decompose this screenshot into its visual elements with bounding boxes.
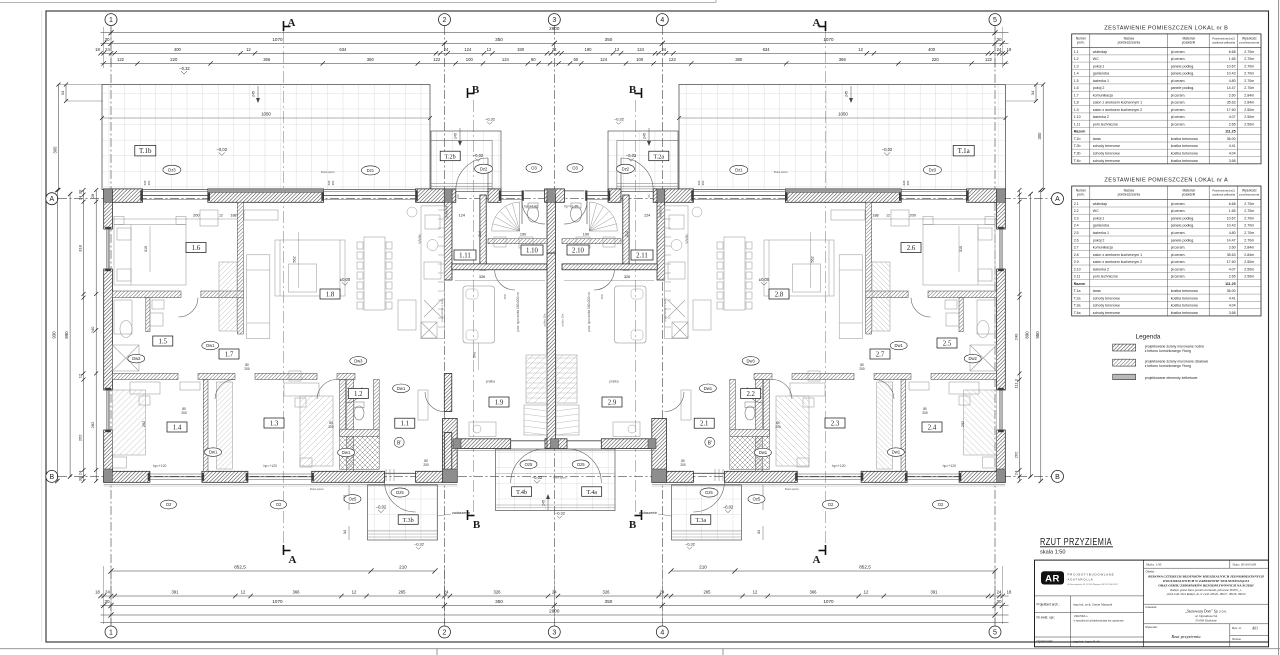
svg-text:852,5: 852,5 [859,565,871,570]
svg-text:pokój 2: pokój 2 [1093,238,1105,242]
terrace T.4 step arrow [547,495,549,510]
svg-text:326: 326 [494,590,502,595]
svg-text:1.65: 1.65 [1229,57,1236,61]
svg-text:A: A [288,17,296,29]
plinth line centre recess [453,450,656,452]
svg-text:1.6: 1.6 [192,245,201,252]
right dimension chain 890 [1030,194,1032,477]
svg-text:Powierzchnia [m2]: Powierzchnia [m2] [1213,189,1235,193]
window right wall O4 upper [998,229,1000,269]
svg-text:111.25: 111.25 [1225,130,1236,134]
svg-text:30: 30 [996,37,1002,42]
svg-text:Dw1: Dw1 [397,386,406,391]
grid bubble 3 top [548,14,560,26]
svg-text:hp=+1,20: hp=+1,20 [524,204,538,208]
svg-text:użytkowa całkowita: użytkowa całkowita [1212,193,1236,197]
svg-text:P R O J E K T Y B U D O W L: P R O J E K T Y B U D O W L A N E [1068,572,1114,576]
washbasin 1.5 / 2.5 [152,300,164,309]
svg-text:1.4: 1.4 [173,425,182,432]
svg-text:–0,02: –0,02 [626,153,637,158]
svg-text:Dz2: Dz2 [480,166,488,171]
svg-text:12: 12 [352,590,357,595]
svg-text:pł.ceram.: pł.ceram. [1171,123,1186,127]
svg-text:–0,02: –0,02 [882,147,893,152]
grid bubble B left [46,470,58,482]
svg-text:łazienka 1: łazienka 1 [1093,231,1109,235]
grid bubble 2 top [439,14,451,26]
svg-text:A: A [813,17,821,29]
exterior top wall [104,189,143,202]
svg-text:B: B [1055,474,1060,481]
tag Dw1 b2 [887,448,904,457]
svg-text:300: 300 [53,146,58,154]
room label 1.7 [219,349,239,359]
svg-text:2.50m: 2.50m [1244,260,1254,264]
core stair upper left [492,202,520,231]
svg-text:w specjalności architektoniczn: w specjalności architektonicznej bez ogr… [1074,620,1125,623]
svg-text:T.1b: T.1b [139,147,152,155]
entrance threshold left [525,190,545,192]
svg-text:WWM: WWM [418,234,422,243]
svg-text:pł.ceram.: pł.ceram. [1171,231,1186,235]
door arc 1.3 [317,380,337,400]
room label 2.6 [901,243,921,253]
right dimension chain 950 [1040,190,1042,481]
tag O3 right [567,164,583,173]
svg-text:–0,02: –0,02 [217,147,228,152]
svg-text:4.07: 4.07 [1229,115,1236,119]
svg-text:salon z aneksem kuchennym 2: salon z aneksem kuchennym 2 [1093,260,1142,264]
grid bubble 4 top [656,14,668,26]
svg-text:5: 5 [993,630,997,637]
svg-text:245: 245 [454,133,458,139]
svg-text:Rura spust.: Rura spust. [321,170,336,174]
svg-text:326: 326 [624,275,630,279]
svg-text:200: 200 [680,463,686,467]
sofa 1.8 / 2.8 [247,255,270,339]
svg-text:2.70m: 2.70m [1244,238,1254,242]
svg-text:A: A [49,196,54,203]
svg-text:±0,00: ±0,00 [340,277,351,282]
svg-text:1.11: 1.11 [459,253,471,260]
svg-text:10.43: 10.43 [1227,224,1236,228]
svg-text:–0,32: –0,32 [414,542,425,547]
svg-text:Skala: 1:50: Skala: 1:50 [1146,562,1162,566]
svg-text:schody terenowe: schody terenowe [1093,159,1120,163]
svg-text:obręb ewid. 0014 Radzyń, dz. n: obręb ewid. 0014 Radzyń, dz. nr ewid. 18… [1167,593,1246,596]
svg-text:Radzyń, gmina Stara, powiat wr: Radzyń, gmina Stara, powiat wrocławski, … [1169,589,1242,592]
room label 2.1 [694,418,714,428]
terrace T.2b step arrow [459,128,461,145]
svg-text:2.65: 2.65 [1229,123,1236,127]
svg-text:Oz5: Oz5 [349,497,357,502]
svg-text:pł.ceram.: pł.ceram. [1171,202,1186,206]
svg-text:6.68: 6.68 [1229,202,1236,206]
room label 1.2 [348,389,368,399]
svg-text:Dz1: Dz1 [735,167,743,172]
svg-text:4.04: 4.04 [1229,152,1236,156]
svg-text:–0,02: –0,02 [376,505,387,510]
tag Dz3 right [923,165,941,174]
svg-text:1.2: 1.2 [354,391,363,398]
svg-text:210: 210 [399,565,407,570]
terrace T.3b label [398,515,418,525]
svg-text:214: 214 [625,231,629,237]
armchair 1.8 / 2.8 [200,210,218,226]
svg-text:540: 540 [473,352,477,358]
svg-text:24: 24 [444,47,449,52]
grid line B [58,475,1051,477]
svg-text:B: B [629,519,637,531]
core wall 2.11/2.10 divider [623,195,629,270]
svg-text:890: 890 [64,331,69,339]
svg-text:1050: 1050 [838,111,848,116]
window O2 left 1 [150,473,202,475]
door Dz5 left [385,472,416,474]
svg-text:90: 90 [647,194,651,198]
svg-text:1.7: 1.7 [1074,93,1079,97]
right terrace dimension 300 [1042,85,1044,191]
terrace T.3b tiles [368,485,438,540]
svg-text:WWM: WWM [685,234,689,243]
svg-text:Rura spust.: Rura spust. [785,487,800,491]
svg-text:12: 12 [487,47,492,52]
svg-text:B: B [49,474,54,481]
svg-text:pom.: pom. [1077,41,1085,45]
svg-text:posadzki: posadzki [1182,193,1196,197]
rug living room 1.8 / 2.8 [275,240,345,296]
svg-text:zadaszenie: zadaszenie [452,511,470,515]
svg-text:240: 240 [1014,333,1019,340]
B' reference left [394,437,404,447]
svg-text:282: 282 [90,421,95,428]
svg-text:200: 200 [244,367,250,371]
svg-text:1.1: 1.1 [1074,50,1079,54]
grid bubble A left [46,193,58,205]
core wall 1.11/1.10 divider [480,195,486,270]
svg-text:200: 200 [423,463,429,467]
tag Dw1 a [202,341,219,350]
centre recess side wall left [443,419,458,483]
terrace T.3b steps [368,533,438,535]
svg-text:Razem: Razem [1074,282,1086,286]
svg-text:pł.ceram.: pł.ceram. [1171,79,1186,83]
svg-text:12: 12 [78,373,83,378]
svg-text:2.4: 2.4 [1074,224,1079,228]
svg-text:Dw1: Dw1 [759,450,768,455]
svg-text:2.50m: 2.50m [1244,123,1254,127]
svg-text:200: 200 [193,214,199,218]
svg-text:950: 950 [1035,331,1040,339]
room label 2.8 [769,289,789,299]
svg-text:WC: WC [1093,209,1099,213]
svg-text:124: 124 [600,57,608,62]
terrace T.1b dim 1050 [102,117,430,119]
svg-text:Rura spust.: Rura spust. [553,476,568,480]
svg-text:310: 310 [144,246,148,252]
svg-text:pł.ceram.: pł.ceram. [1171,57,1186,61]
window O2 left 2 [248,473,312,475]
kitchen upper cabinets 1.8 / 2.8 [443,206,445,339]
svg-text:14.47: 14.47 [1227,86,1236,90]
svg-text:kostka betonowa: kostka betonowa [1171,137,1198,141]
svg-text:292: 292 [961,421,965,427]
door arc T.2b [456,158,488,190]
svg-text:2.8: 2.8 [775,292,784,299]
svg-text:łazienka 1: łazienka 1 [1093,79,1109,83]
svg-text:1.5: 1.5 [1074,79,1079,83]
grid bubble 3 bottom [548,626,560,638]
svg-text:1070: 1070 [272,37,283,42]
svg-text:Razem: Razem [1074,130,1086,134]
svg-text:36.00: 36.00 [1227,289,1236,293]
svg-text:122: 122 [433,57,441,62]
bathroom 2.10 fixtures [603,237,615,247]
terrace T.2b label [440,151,460,161]
section marker B bottom-left [467,510,469,520]
top dimension line detail 1 [101,52,1009,54]
svg-text:350: 350 [605,599,613,604]
svg-text:2.9: 2.9 [1074,260,1079,264]
terrace T.2a step arrow [648,128,650,145]
svg-text:1: 1 [109,17,113,24]
svg-text:A: A [813,554,821,566]
svg-text:panele podłog.: panele podłog. [1171,86,1195,90]
svg-text:2.7: 2.7 [876,352,885,359]
page edge bottom [0,648,1280,650]
svg-text:pł.ceram.: pł.ceram. [1171,115,1186,119]
terrace T.3a tiles [672,485,742,540]
svg-text:T.2a: T.2a [653,154,664,161]
svg-text:panele podłog.: panele podłog. [1171,64,1195,68]
svg-text:O3: O3 [531,166,537,171]
svg-text:24: 24 [105,47,110,52]
svg-text:1: 1 [109,630,113,637]
svg-text:T.2b: T.2b [445,154,456,161]
svg-text:30: 30 [78,476,83,481]
svg-text:BUDOWA CZTERECH BUDYNKÓW MIESZ: BUDOWA CZTERECH BUDYNKÓW MIESZKALNYCH JE… [1147,573,1264,578]
room label 2.11 [631,250,653,260]
svg-text:kostka betonowa: kostka betonowa [1171,304,1198,308]
partition 1.6/1.8 and mirror [237,202,243,334]
svg-text:pralka: pralka [486,380,495,384]
coffee table 1.8 / 2.8 [289,264,317,292]
svg-text:schody terenowe: schody terenowe [1093,152,1120,156]
svg-text:T.4b: T.4b [1074,159,1081,163]
svg-text:2.70m: 2.70m [1244,224,1254,228]
svg-text:Data: 2019.03.08: Data: 2019.03.08 [1233,562,1257,566]
bed room 1.3 / 2.3 [300,396,333,466]
room label 1.4 [167,422,187,432]
tag O2 left 2 [271,500,287,509]
svg-text:z betonu komórkowego Ytong: z betonu komórkowego Ytong [1145,349,1191,353]
svg-text:1.3: 1.3 [270,421,279,428]
svg-text:pom.techniczne: pom.techniczne [1093,275,1118,279]
left terrace dimension 300 [58,85,60,191]
svg-text:1.10: 1.10 [1074,115,1081,119]
svg-text:pralka: pralka [609,380,618,384]
grid bubble 5 bottom [989,626,1001,638]
svg-text:taras: taras [1093,137,1101,141]
legend swatch walls partition [1113,359,1136,366]
svg-text:2.11: 2.11 [636,253,648,260]
tag Dz1 right [730,165,748,174]
svg-text:kostka betonowa: kostka betonowa [1171,311,1198,315]
svg-text:O2: O2 [828,502,834,507]
svg-text:łazienka 2: łazienka 2 [1093,115,1109,119]
svg-text:pł.ceram.: pł.ceram. [1171,275,1186,279]
svg-text:2.5: 2.5 [943,341,952,348]
svg-text:122: 122 [117,57,125,62]
svg-text:hp=+120: hp=+120 [832,464,846,468]
terrace T.4 steps [496,504,616,506]
grid bubble A right [1052,193,1064,205]
svg-text:Dz5: Dz5 [705,490,713,495]
svg-text:124: 124 [459,214,465,218]
left dimension chain detail [83,190,85,481]
svg-text:5: 5 [993,17,997,24]
svg-text:245: 245 [542,500,546,506]
svg-text:2.10: 2.10 [1074,267,1081,271]
svg-text:4.41: 4.41 [1229,144,1236,148]
svg-text:Dw2: Dw2 [969,356,978,361]
svg-text:–0,32: –0,32 [485,117,496,122]
svg-text:2.84m: 2.84m [1244,253,1254,257]
svg-text:1050: 1050 [261,111,271,116]
svg-text:214: 214 [478,231,482,237]
svg-text:240: 240 [90,326,95,333]
svg-text:1.11: 1.11 [1074,123,1081,127]
svg-text:2.50m: 2.50m [1244,108,1254,112]
svg-text:pł.ceram.: pł.ceram. [1171,246,1186,250]
bottom dimension line 1070 [101,605,1009,607]
svg-text:634: 634 [339,47,347,52]
svg-text:6.68: 6.68 [1229,50,1236,54]
svg-text:1.10: 1.10 [526,248,538,255]
svg-text:2.70m: 2.70m [1244,202,1254,206]
svg-text:schody terenowe: schody terenowe [1093,144,1120,148]
svg-text:T.2a: T.2a [1074,296,1081,300]
svg-text:O3: O3 [572,166,578,171]
terrace T.3a label [691,515,711,525]
door arc 1.5 [179,298,199,317]
page edge top [0,2,716,4]
svg-text:kostka betonowa: kostka betonowa [1171,296,1198,300]
svg-text:190: 190 [585,47,593,52]
svg-text:Rura spust.: Rura spust. [774,170,789,174]
window left wall O4 upper [105,229,107,269]
svg-text:A G A T A R O L L A: A G A T A R O L L A [1068,577,1093,581]
shelf 1.4 / 2.4 [180,382,200,390]
svg-text:90: 90 [456,194,460,198]
room label 1.5 [153,336,173,346]
svg-text:kostka betonowa: kostka betonowa [1171,289,1198,293]
svg-text:2.84m: 2.84m [1244,93,1254,97]
svg-text:łazienka 2: łazienka 2 [1093,267,1109,271]
svg-text:2.8: 2.8 [1074,253,1079,257]
plinth line bottom right unit [652,483,1006,485]
svg-text:schody terenowe: schody terenowe [1093,296,1120,300]
section cut B [472,100,474,512]
top dimension line detail 2 [101,62,1009,64]
section cut A [283,31,285,545]
svg-text:2.6: 2.6 [1074,238,1079,242]
svg-text:panele podłog.: panele podłog. [1171,224,1195,228]
vestibule sidelight left [501,191,522,193]
svg-text:pokój 1: pokój 1 [1093,217,1105,221]
section marker B bottom-right [641,510,643,520]
centre bottom wall [453,439,511,449]
room label 2.4 [922,422,942,432]
svg-text:2.70m: 2.70m [1244,72,1254,76]
svg-text:z betonu komórkowego Ytong: z betonu komórkowego Ytong [1145,364,1191,368]
hall 1.1 / 2.1 bench [418,390,428,420]
svg-text:Dw1: Dw1 [209,450,218,455]
svg-text:1070: 1070 [823,37,834,42]
exterior bottom wall right unit [652,471,694,482]
svg-text:posadzki: posadzki [1182,41,1196,45]
svg-text:ZESTAWIENIE POMIESZCZEŃ LOKAL: ZESTAWIENIE POMIESZCZEŃ LOKAL nr B [1104,25,1228,32]
right dimension chain detail [1019,190,1021,481]
svg-text:1.2: 1.2 [1074,57,1079,61]
room label 1.8 [320,289,340,299]
svg-text:366: 366 [810,590,818,595]
svg-text:1.8: 1.8 [1074,101,1079,105]
svg-text:14.47: 14.47 [1227,238,1236,242]
svg-text:T.4a: T.4a [1074,311,1081,315]
svg-text:pow. spocznika 160x200cm: pow. spocznika 160x200cm [516,292,520,331]
tag Dz2 right [616,164,634,173]
svg-text:2.60: 2.60 [1229,93,1236,97]
shower 1.5 / 2.5 [112,345,139,371]
door arc T.2a [621,158,653,190]
svg-text:Dw1: Dw1 [704,386,713,391]
core wall right vertical [657,189,665,280]
tag Oz5 T3a [748,495,765,504]
tag Oz5 centre left [520,460,537,469]
svg-text:124: 124 [502,57,510,62]
svg-text:kostka betonowa: kostka betonowa [1171,144,1198,148]
door arc 1.1 to 1.9 [425,392,444,412]
tag Dw1 d2 [699,384,716,393]
svg-text:Oz5: Oz5 [525,462,533,467]
svg-text:12: 12 [219,214,223,218]
svg-text:T.3a: T.3a [1074,304,1081,308]
svg-text:Rys. nr:: Rys. nr: [1232,626,1242,630]
room label 2.5 [937,338,957,348]
svg-text:mgr inż. arch. Zenon Mazurek: mgr inż. arch. Zenon Mazurek [1074,603,1113,607]
svg-text:2: 2 [443,630,447,637]
tag Dz5 right [700,488,718,497]
door arc Dz5 left [385,481,416,512]
bottom dimension line 852.5 right [671,570,995,572]
svg-text:1.9: 1.9 [1074,108,1079,112]
svg-text:garderoba: garderoba [1093,72,1109,76]
svg-text:35.63: 35.63 [1227,101,1236,105]
svg-text:hp=+120: hp=+120 [943,464,957,468]
svg-text:1.3: 1.3 [1074,64,1079,68]
tag Dw3 a [350,357,367,366]
centre recess side wall right [652,419,667,483]
left dimension chain inner [95,190,97,481]
svg-text:schody terenowe: schody terenowe [1093,304,1120,308]
door Oz5 left threshold [511,440,545,442]
svg-text:ZESTAWIENIE POMIESZCZEŃ LOKAL: ZESTAWIENIE POMIESZCZEŃ LOKAL nr A [1104,177,1228,184]
grid bubble 4 bottom [656,626,668,638]
svg-text:Dz3: Dz3 [929,167,937,172]
bathroom 1.5 / 2.5 washer [150,313,163,326]
terrace T.4 tiles [496,449,616,511]
